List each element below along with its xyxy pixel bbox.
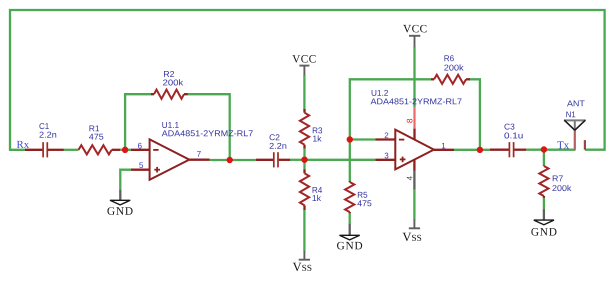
node pin6 junction	[122, 147, 128, 153]
capacitor C3	[490, 124, 526, 158]
capacitor C2	[256, 134, 290, 167]
wire pin4 to Vss	[413, 189, 415, 220]
wire feedback R2 right vertical	[188, 94, 230, 160]
node Tx junction	[541, 146, 547, 152]
net label Rx	[17, 141, 29, 148]
wire op1 output to C2	[210, 159, 256, 161]
wire R4 to Vss	[303, 209, 305, 251]
wire R3 to divider node	[303, 148, 305, 160]
pin 4 stub	[413, 159, 415, 170]
op-amp U1.1	[131, 122, 253, 180]
pin 8 stub	[413, 107, 415, 129]
wire loopback border net	[10, 10, 605, 151]
wire R7 to GND	[543, 198, 545, 210]
ground GND3 (R7)	[531, 209, 556, 235]
wire R1 to pin6 node	[120, 149, 131, 151]
resistor R4	[300, 169, 322, 210]
wire op2 output to C3	[454, 149, 490, 151]
resistor R2	[151, 71, 188, 99]
wire feedback R2 left vertical	[125, 94, 151, 150]
power Vss1	[293, 251, 312, 271]
wire VCC2 down to pin8	[413, 47, 415, 107]
wire R6 feedback loop	[350, 79, 431, 139]
resistor R1	[79, 125, 121, 154]
wire divider node to pin3	[305, 159, 376, 161]
op-amp U1.2	[371, 90, 462, 189]
power VCC1	[292, 55, 315, 75]
resistor R6	[431, 55, 470, 84]
antenna N1	[564, 100, 586, 149]
wire VCC to R3	[303, 75, 305, 110]
antenna pin2 stub	[584, 140, 586, 150]
node divider junction	[301, 157, 307, 163]
wire C1 to R1	[64, 149, 79, 151]
wire Tx node to antenna	[544, 149, 576, 151]
wire pin2 node to pin2	[350, 138, 376, 140]
wire R6 to output node	[469, 79, 480, 150]
wire pin2 node down to R5	[349, 140, 351, 182]
wire pin5 to GND	[120, 170, 131, 191]
ground GND2 (R5)	[337, 224, 362, 250]
wire R5 to GND stub	[349, 213, 351, 224]
wire divider node down to R4	[303, 160, 305, 169]
resistor R3	[300, 109, 322, 148]
net label Tx	[557, 141, 569, 148]
ground GND1 (U1.1 pin5)	[107, 190, 132, 215]
node op1 output junction	[227, 157, 233, 163]
wire C3 to Tx node	[526, 149, 544, 151]
resistor R7	[539, 166, 571, 198]
capacitor C1	[25, 123, 64, 157]
wire C2 to divider node	[290, 159, 305, 161]
power Vss2	[403, 219, 422, 241]
node op2 output junction	[477, 147, 483, 153]
wire Rx segment	[9, 149, 26, 151]
wire Tx node down to R7	[543, 150, 545, 166]
power VCC2	[403, 25, 426, 47]
node pin2 junction	[347, 136, 353, 142]
resistor R5	[345, 181, 371, 213]
